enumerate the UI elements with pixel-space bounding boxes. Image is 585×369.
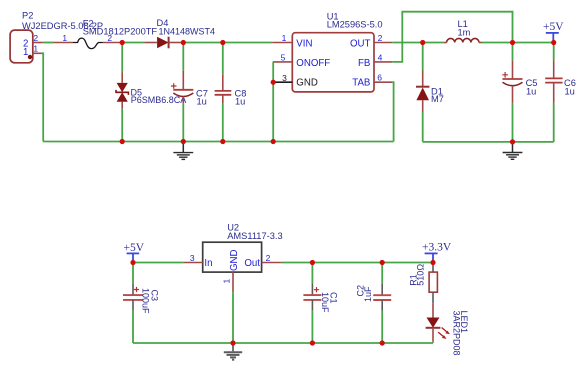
svg-text:5: 5 — [281, 53, 286, 63]
node U2 GND rail — [230, 340, 235, 345]
bottom rail right (D1-C5-C6) — [423, 141, 554, 143]
wire to +5V — [513, 42, 554, 44]
U2 pin 2 Out — [262, 253, 282, 263]
node C5/ground — [510, 139, 515, 144]
capacitor C5 — [502, 43, 537, 142]
wire P2 pin1 down — [42, 53, 43, 141]
node D4/C7 junction — [181, 40, 186, 45]
node +5V/C6 — [551, 40, 556, 45]
svg-text:1uF: 1uF — [363, 286, 373, 302]
svg-text:VIN: VIN — [296, 38, 312, 49]
svg-text:LM2596S-5.0: LM2596S-5.0 — [327, 20, 383, 30]
ground symbol right — [503, 142, 523, 159]
svg-text:1: 1 — [62, 33, 67, 43]
wire TAB to ground rail — [392, 82, 393, 141]
wire Out to +3.3V — [282, 262, 313, 264]
svg-text:GND: GND — [296, 78, 318, 89]
capacitor C3 — [123, 263, 160, 344]
node FB/C5 — [510, 40, 515, 45]
svg-text:2: 2 — [33, 33, 38, 43]
svg-text:GND: GND — [229, 249, 240, 271]
capacitor C1 — [303, 263, 338, 344]
net flag +5V top — [543, 21, 564, 43]
svg-text:+3.3V: +3.3V — [422, 242, 452, 254]
wire U2 GND down — [232, 292, 234, 343]
svg-text:4: 4 — [378, 53, 383, 63]
U1 pin 5 ONOFF — [273, 53, 292, 63]
wire pin3 to ground rail — [272, 82, 274, 141]
svg-text:ONOFF: ONOFF — [296, 58, 330, 69]
svg-text:1: 1 — [23, 47, 28, 58]
svg-text:1u: 1u — [526, 86, 536, 96]
svg-text:2: 2 — [378, 33, 383, 43]
svg-text:M7: M7 — [431, 94, 444, 104]
svg-text:AMS1117-3.3: AMS1117-3.3 — [227, 231, 282, 241]
node L1 left / D1 — [420, 40, 425, 45]
rail junction C8 — [220, 139, 225, 144]
U1 pin 6 TAB — [374, 72, 392, 82]
diode D1 — [416, 43, 444, 142]
svg-text:3: 3 — [282, 73, 287, 83]
diode D4 — [144, 18, 215, 48]
svg-text:FB: FB — [358, 58, 370, 69]
net flag +3.3V — [422, 242, 452, 263]
svg-text:OUT: OUT — [350, 38, 371, 49]
U2 pin 3 In — [183, 253, 202, 263]
svg-text:3AR2PD08: 3AR2PD08 — [452, 311, 462, 356]
wire — [312, 262, 382, 264]
connector P2 — [10, 11, 103, 63]
node C8 junction — [220, 40, 225, 45]
regulator U2 box — [203, 223, 283, 273]
net flag +5V bottom — [124, 242, 145, 263]
U1 pin 1 VIN — [272, 33, 292, 43]
svg-text:2: 2 — [266, 253, 271, 263]
ground symbol left — [173, 142, 193, 160]
U1 pin 3 GND — [273, 73, 292, 83]
node +3.3V — [430, 260, 435, 265]
svg-text:1u: 1u — [235, 97, 245, 107]
svg-text:1: 1 — [282, 33, 287, 43]
svg-text:P6SMB6.8CA: P6SMB6.8CA — [131, 95, 187, 105]
U2 pin 1 GND — [222, 272, 234, 292]
svg-text:1: 1 — [222, 279, 232, 284]
capacitor C7 — [171, 43, 208, 142]
node pin5/pin3 — [271, 80, 276, 85]
wire — [183, 42, 223, 44]
rail junction GND wire — [271, 139, 276, 144]
wire +5V to U2 In — [133, 262, 183, 264]
fuse F2 — [54, 19, 157, 49]
wire to U1 VIN — [223, 42, 272, 44]
wire L1 to node — [482, 42, 513, 44]
P2 pin 1 — [33, 44, 42, 54]
inductor L1 — [444, 19, 482, 42]
svg-text:1m: 1m — [458, 27, 471, 37]
wire LED to rail — [432, 341, 434, 343]
wire OUT to L1 — [392, 42, 422, 44]
wire — [423, 42, 444, 44]
svg-text:In: In — [204, 258, 212, 269]
svg-text:100uF: 100uF — [141, 288, 151, 314]
capacitor C6 — [545, 43, 576, 142]
ground symbol bottom — [224, 343, 242, 360]
svg-text:6: 6 — [377, 72, 382, 82]
wire — [382, 262, 433, 264]
svg-text:1u: 1u — [197, 97, 207, 107]
ground rail top circuit — [43, 141, 393, 143]
node D5 bottom — [120, 139, 125, 144]
svg-text:+5V: +5V — [543, 21, 564, 33]
svg-text:P2: P2 — [22, 11, 33, 21]
wire pin5 down — [272, 62, 274, 82]
svg-text:2: 2 — [107, 33, 112, 43]
TVS diode D5 — [116, 43, 186, 142]
node C2 rail — [380, 340, 385, 345]
svg-text:1N4148WST4: 1N4148WST4 — [159, 26, 216, 36]
svg-text:1u: 1u — [565, 86, 575, 96]
svg-text:510Ω: 510Ω — [415, 264, 425, 286]
resistor R1 — [408, 263, 437, 304]
U1 pin 4 FB — [374, 53, 392, 63]
svg-text:Out: Out — [244, 258, 260, 269]
svg-text:10uF: 10uF — [320, 292, 330, 313]
node C2 top — [380, 260, 385, 265]
LED LED1 — [426, 303, 469, 355]
svg-text:SMD1812P200TF: SMD1812P200TF — [83, 26, 158, 36]
op-amp U1 box — [292, 11, 382, 92]
node F2/D5 junction — [120, 40, 125, 45]
svg-text:+5V: +5V — [124, 242, 145, 254]
capacitor C2 — [356, 263, 392, 344]
rail junction D5 — [181, 139, 186, 144]
node C1 rail — [310, 340, 315, 345]
svg-text:3: 3 — [190, 253, 195, 263]
node C1 top — [310, 260, 315, 265]
U1 pin 2 OUT — [374, 33, 392, 43]
wire FB feedback loop — [392, 12, 512, 62]
bottom rail — [133, 342, 433, 344]
svg-text:TAB: TAB — [352, 78, 370, 89]
wire P2 to F2 — [43, 42, 54, 44]
wire to D4 — [122, 42, 144, 44]
svg-text:1: 1 — [33, 44, 38, 54]
capacitor C8 — [215, 43, 247, 142]
node +5V bottom — [130, 260, 135, 265]
P2 pin 2 — [33, 33, 43, 43]
